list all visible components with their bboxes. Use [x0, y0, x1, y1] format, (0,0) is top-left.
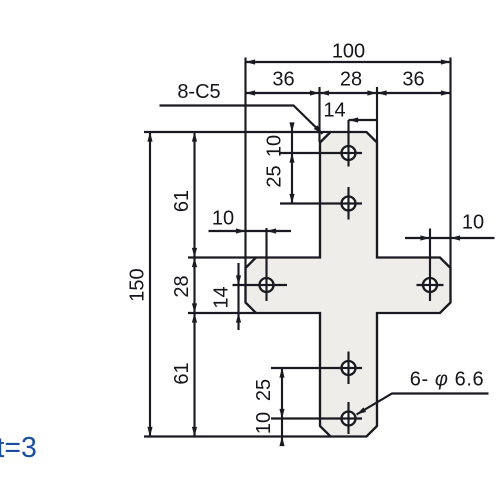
svg-text:25: 25 [264, 165, 286, 187]
svg-text:t=3: t=3 [0, 432, 37, 464]
svg-text:10: 10 [264, 135, 286, 157]
svg-text:8-C5: 8-C5 [177, 81, 220, 103]
svg-text:10: 10 [462, 212, 484, 234]
svg-text:150: 150 [127, 268, 149, 301]
svg-text:6- φ 6.6: 6- φ 6.6 [410, 369, 485, 391]
svg-text:61: 61 [171, 190, 193, 212]
svg-text:36: 36 [272, 69, 294, 91]
svg-text:25: 25 [253, 379, 275, 401]
svg-text:10: 10 [253, 412, 275, 434]
svg-text:10: 10 [212, 208, 234, 230]
svg-text:28: 28 [340, 69, 362, 91]
svg-text:14: 14 [323, 100, 345, 122]
svg-text:14: 14 [211, 286, 233, 308]
svg-text:100: 100 [332, 41, 365, 63]
svg-text:61: 61 [171, 362, 193, 384]
svg-text:28: 28 [171, 275, 193, 297]
svg-text:36: 36 [402, 69, 424, 91]
